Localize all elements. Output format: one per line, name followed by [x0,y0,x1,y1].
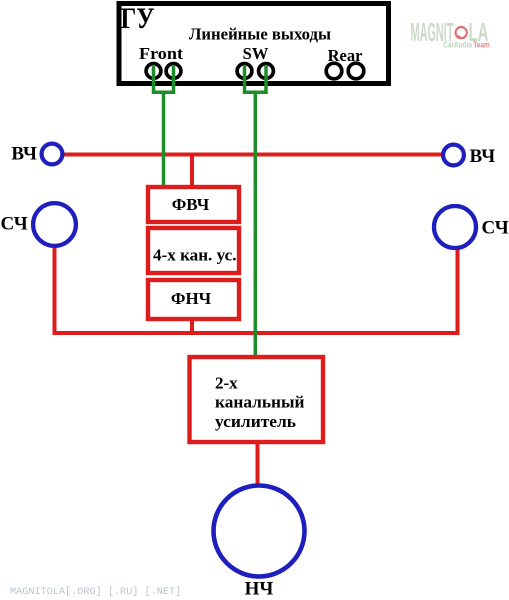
svg-text:ГУ: ГУ [121,2,155,35]
tweeter right ВЧ [443,145,464,166]
svg-text:Team: Team [473,40,490,49]
wire green Front plug [154,66,174,187]
svg-text:ВЧ: ВЧ [11,144,37,165]
wire green SW plug [245,66,267,355]
wire red left СЧ down [53,247,57,335]
RCA jack Rear left [326,63,342,79]
svg-text:4-х кан. ус.: 4-х кан. ус. [153,246,237,265]
wire red bottom bus [53,331,460,335]
svg-text:ВЧ: ВЧ [470,146,496,167]
svg-text:СЧ: СЧ [1,214,28,235]
wire red right СЧ down [456,249,460,335]
midrange right СЧ [434,206,476,248]
svg-text:ФНЧ: ФНЧ [171,289,212,308]
svg-text:Front: Front [139,44,184,63]
wire red stub ФНЧ to bus [190,320,194,333]
amplifier box 4-х кан. ус. [148,228,239,273]
RCA jack Rear right [348,63,364,79]
RCA jack Front right [166,64,181,79]
svg-text:2-х: 2-х [215,374,238,393]
head unit box ГУ [119,4,389,84]
svg-text:усилитель: усилитель [215,412,296,431]
tweeter left ВЧ [42,144,63,165]
svg-text:Линейные выходы: Линейные выходы [189,24,331,43]
wire red top bus [63,153,442,157]
amplifier box 2-х канальный усилитель [190,357,324,442]
svg-text:MAGNITOLA[.ORG] [.RU] [.NET]: MAGNITOLA[.ORG] [.RU] [.NET] [10,586,181,598]
watermark logo MAGNITOLA [411,17,490,49]
svg-text:CarAudio: CarAudio [443,40,472,49]
RCA jack Front left [146,64,161,79]
filter box ФНЧ [148,280,239,319]
subwoofer НЧ [214,486,305,577]
RCA jack SW right [259,64,274,79]
RCA jack SW left [237,64,252,79]
svg-text:СЧ: СЧ [482,218,509,239]
wire red 2ch amp to НЧ [256,443,260,485]
filter box ФВЧ [148,187,239,222]
midrange left СЧ [33,203,76,246]
svg-text:канальный: канальный [215,393,305,412]
svg-text:НЧ: НЧ [245,579,274,600]
wire red stub bus to ФВЧ [190,155,194,188]
svg-text:SW: SW [243,44,269,63]
svg-text:ФВЧ: ФВЧ [172,195,210,214]
